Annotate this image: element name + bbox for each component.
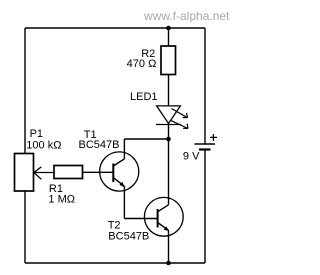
svg-text:BC547B: BC547B	[108, 231, 149, 243]
svg-text:9 V: 9 V	[183, 151, 200, 163]
svg-text:100 kΩ: 100 kΩ	[26, 140, 61, 152]
svg-text:www.f-alpha.net: www.f-alpha.net	[143, 9, 230, 23]
svg-text:T2: T2	[108, 219, 121, 231]
svg-text:P1: P1	[30, 128, 43, 140]
svg-text:1 MΩ: 1 MΩ	[48, 194, 75, 206]
svg-text:470 Ω: 470 Ω	[127, 58, 157, 70]
svg-text:LED1: LED1	[130, 91, 158, 103]
svg-text:BC547B: BC547B	[79, 139, 120, 151]
